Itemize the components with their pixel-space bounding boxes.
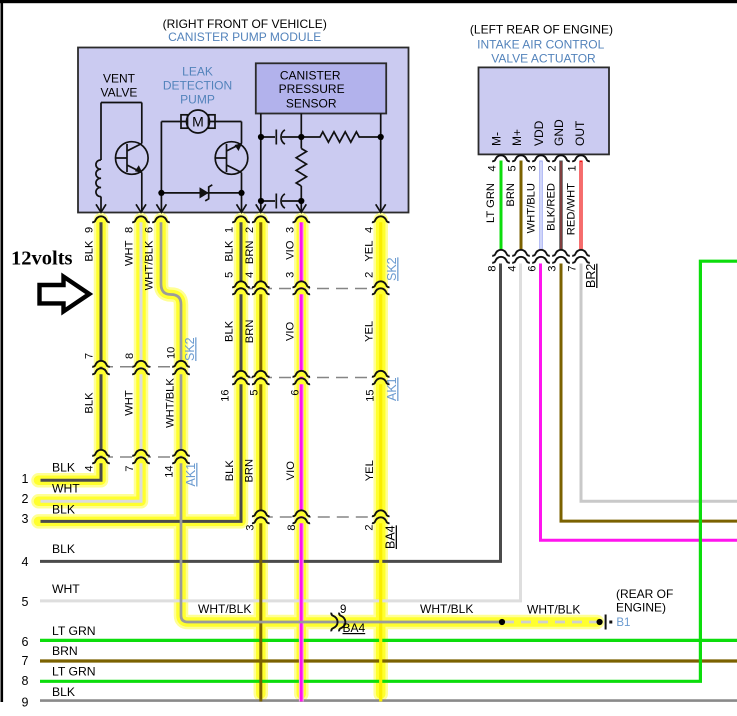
- connector BA4 break (YEL): [372, 510, 390, 516]
- connector BA4 break (VIO): [293, 510, 311, 516]
- svg-text:RED/WHT: RED/WHT: [566, 183, 578, 235]
- wire BLK from module pin 1 to row 3: [41, 222, 242, 522]
- svg-text:BLK: BLK: [84, 240, 96, 262]
- svg-text:15: 15: [365, 390, 377, 402]
- connector BA4 break on horizontal WHT/BLK: [331, 613, 337, 632]
- band BLK pin9 wire + row1 (outer): [39, 220, 102, 480]
- svg-text:BRN: BRN: [244, 459, 256, 483]
- wire WHT/BLU actuator pin VDD: [539, 161, 542, 250]
- row 7 BRN wire: [40, 659, 737, 662]
- svg-text:AK1: AK1: [385, 377, 399, 401]
- svg-text:M+: M+: [510, 129, 524, 146]
- band BRN pin2 wire (inner): [256, 220, 266, 694]
- svg-text:WHT: WHT: [124, 240, 136, 266]
- page left border: [1, 0, 4, 702]
- svg-text:7: 7: [124, 466, 136, 472]
- zener diode line: [161, 192, 241, 194]
- svg-text:4: 4: [487, 165, 499, 171]
- svg-text:YEL: YEL: [364, 460, 376, 481]
- leak detection pump motor wiring: [161, 122, 241, 213]
- svg-text:BLK: BLK: [224, 240, 236, 262]
- svg-text:ENGINE): ENGINE): [616, 601, 666, 615]
- svg-text:14: 14: [164, 466, 176, 478]
- wire BRN from module pin 2: [259, 222, 262, 702]
- module pin socket 2: [252, 216, 270, 222]
- svg-text:B1: B1: [616, 617, 630, 629]
- dashed connector link AK1 (left group): [101, 456, 181, 458]
- svg-text:6: 6: [144, 227, 156, 233]
- connector AK1 break (YEL): [372, 371, 390, 377]
- svg-text:3: 3: [527, 165, 539, 171]
- connector SK2 break (BLK right): [232, 281, 250, 287]
- svg-text:OUT: OUT: [573, 120, 587, 146]
- svg-text:VDD: VDD: [532, 120, 546, 146]
- sensor right wire (pin 4 YEL): [380, 114, 382, 213]
- module exit arrow pin 4: [376, 204, 386, 212]
- connector AK1 break (WHT/BLK): [172, 450, 190, 456]
- dashed connector link SK2 (right group): [241, 288, 381, 290]
- dashed connector link SK2 (left group): [101, 366, 181, 368]
- svg-text:BRN: BRN: [52, 644, 78, 658]
- actuator pin socket VDD: [532, 155, 550, 161]
- WHT wire from BR2 pin 7 to right edge: [581, 264, 737, 502]
- connector SK2 break (YEL): [372, 281, 390, 287]
- svg-text:M: M: [192, 114, 204, 130]
- dashed WHT/BLK segment to B1: [504, 621, 598, 624]
- dashed connector link AK1 (right group): [241, 377, 381, 379]
- svg-text:3: 3: [22, 512, 29, 526]
- module pin socket 6: [152, 216, 170, 222]
- svg-text:6: 6: [22, 635, 29, 649]
- svg-text:PUMP: PUMP: [180, 93, 215, 107]
- connector AK1 break (BLK): [92, 450, 110, 456]
- svg-text:BA4: BA4: [343, 621, 366, 635]
- svg-text:WHT: WHT: [124, 390, 136, 416]
- svg-text:2: 2: [364, 525, 376, 531]
- sensor left wire (pin 2 BRN): [260, 114, 262, 213]
- band BLK pin1 wire + row3 (inner): [39, 220, 242, 521]
- row 5 WHT wire (to BR2 pin 4): [40, 264, 521, 601]
- svg-text:1: 1: [22, 472, 29, 486]
- row 8 LT GRN wire loop to right edge: [40, 261, 737, 681]
- connector SK2 break (BRN): [252, 281, 270, 287]
- svg-text:1: 1: [567, 165, 579, 171]
- svg-text:WHT: WHT: [52, 582, 80, 596]
- band BLK pin1 wire + row3 (outer): [39, 220, 242, 521]
- sensor middle wire (pin 3 VIO): [300, 114, 302, 213]
- module exit arrow pin 3: [296, 204, 306, 212]
- band WHT/BLK pin6 wire + horizontal WHT/BLK run (outer): [161, 220, 597, 622]
- svg-text:LT GRN: LT GRN: [52, 665, 96, 679]
- connector SK2 break (BLK): [92, 361, 110, 367]
- svg-text:SENSOR: SENSOR: [286, 97, 337, 111]
- svg-text:8: 8: [22, 674, 29, 688]
- svg-text:YEL: YEL: [364, 241, 376, 262]
- svg-text:WHT/BLK: WHT/BLK: [144, 240, 156, 290]
- module exit arrow pin 2: [256, 204, 266, 212]
- resistor R2 (horizontal): [301, 132, 380, 142]
- svg-text:16: 16: [220, 390, 232, 402]
- row 6 LT GRN wire: [40, 639, 737, 642]
- connector BR2 break: [512, 250, 530, 256]
- svg-text:10: 10: [166, 347, 178, 359]
- svg-text:YEL: YEL: [364, 321, 376, 342]
- svg-text:SK2: SK2: [385, 257, 399, 281]
- band VIO pin3 wire (outer): [294, 220, 309, 694]
- svg-text:2: 2: [364, 272, 376, 278]
- wire LT GRN actuator pin M-: [500, 161, 503, 250]
- svg-text:8: 8: [124, 227, 136, 233]
- svg-text:BLK: BLK: [52, 503, 75, 517]
- svg-text:5: 5: [249, 390, 261, 396]
- svg-text:BLK: BLK: [52, 685, 75, 699]
- svg-text:WHT/BLK: WHT/BLK: [527, 603, 580, 617]
- junction dot: [258, 134, 264, 140]
- svg-text:4: 4: [507, 266, 519, 272]
- band VIO pin3 wire (inner): [297, 220, 307, 694]
- svg-text:3: 3: [285, 227, 297, 233]
- svg-text:LEAK: LEAK: [182, 65, 213, 79]
- junction dot: [238, 190, 244, 196]
- module exit arrow pin 1: [237, 204, 247, 212]
- connector BA4 break (BRN): [252, 510, 270, 516]
- vent valve coil + wiring: [101, 103, 142, 213]
- svg-text:2: 2: [22, 492, 29, 506]
- svg-text:GND: GND: [552, 119, 566, 146]
- svg-text:WHT/BLK: WHT/BLK: [165, 378, 177, 428]
- svg-text:BLK: BLK: [52, 461, 75, 475]
- band WHT pin8 wire + row2 (inner): [39, 220, 142, 501]
- svg-text:3: 3: [547, 266, 559, 272]
- module pin socket 8: [132, 216, 150, 222]
- canister pump module box: [78, 48, 409, 213]
- connector SK2 break (WHT): [132, 361, 150, 367]
- svg-text:4: 4: [22, 555, 29, 569]
- wire BLK/RED actuator pin GND: [559, 161, 562, 250]
- ground point B1: [605, 615, 607, 630]
- motor M circle: [187, 110, 210, 133]
- page top border: [0, 0, 737, 3]
- svg-text:7: 7: [567, 266, 579, 272]
- svg-text:AK1: AK1: [184, 463, 198, 487]
- svg-text:CANISTER PUMP MODULE: CANISTER PUMP MODULE: [168, 30, 321, 44]
- wire BRN actuator pin M+: [520, 161, 523, 250]
- svg-text:VALVE: VALVE: [101, 85, 138, 99]
- connector BR2 break: [572, 250, 590, 256]
- svg-text:BLK/RED: BLK/RED: [546, 183, 558, 231]
- module pin socket 3: [293, 216, 311, 222]
- connector SK2 break (WHT/BLK): [172, 361, 190, 367]
- canister pressure sensor box: [256, 63, 386, 113]
- motor terminal brackets: [181, 115, 188, 128]
- svg-text:LT GRN: LT GRN: [52, 624, 96, 638]
- wire RED/WHT actuator pin OUT: [579, 161, 582, 250]
- band YEL pin4 wire (outer): [373, 220, 388, 694]
- BRN wire from BR2 pin 3 to right edge: [561, 264, 737, 522]
- svg-text:12volts: 12volts: [11, 248, 73, 270]
- connector BR2 break: [492, 250, 510, 256]
- svg-text:PRESSURE: PRESSURE: [279, 82, 345, 96]
- svg-text:(REAR OF: (REAR OF: [616, 587, 673, 601]
- transistor Q2 (pump): [215, 142, 248, 175]
- svg-text:4: 4: [244, 272, 256, 278]
- svg-text:3: 3: [285, 272, 297, 278]
- actuator pin socket OUT: [572, 155, 590, 161]
- svg-text:5: 5: [507, 165, 519, 171]
- module exit arrow pin 6: [156, 204, 166, 212]
- module exit arrow pin 9: [96, 204, 106, 212]
- svg-text:9: 9: [84, 227, 96, 233]
- connector AK1 break (VIO): [293, 371, 311, 377]
- svg-text:BRN: BRN: [244, 241, 256, 265]
- svg-text:(LEFT REAR OF ENGINE): (LEFT REAR OF ENGINE): [470, 23, 613, 37]
- wire WHT/BLK from module pin 6, jog, down and right to splice: [161, 222, 502, 623]
- connector BR2 break: [532, 250, 550, 256]
- wire BLK from module pin 9 to row 1: [41, 222, 102, 481]
- connector AK1 break (WHT): [132, 450, 150, 456]
- actuator pin socket M+: [512, 155, 530, 161]
- svg-text:8: 8: [286, 525, 298, 531]
- svg-text:7: 7: [84, 353, 96, 359]
- transistor Q1 (vent valve): [116, 142, 149, 175]
- svg-text:WHT/BLK: WHT/BLK: [420, 602, 473, 616]
- svg-text:WHT/BLU: WHT/BLU: [526, 183, 538, 233]
- Q2 collector arrowhead: [235, 143, 243, 151]
- svg-text:VENT: VENT: [103, 72, 136, 86]
- svg-text:BR2: BR2: [584, 264, 598, 288]
- junction dot: [158, 190, 164, 196]
- module pin socket 9: [92, 216, 110, 222]
- svg-text:4: 4: [364, 227, 376, 233]
- svg-text:2: 2: [547, 165, 559, 171]
- junction dot: [258, 198, 264, 204]
- svg-text:BLK: BLK: [52, 542, 75, 556]
- svg-text:5: 5: [224, 272, 236, 278]
- svg-text:6: 6: [527, 266, 539, 272]
- svg-text:CANISTER: CANISTER: [280, 68, 341, 82]
- svg-text:9: 9: [22, 696, 29, 710]
- wire VIO from module pin 3: [299, 222, 304, 702]
- svg-text:DETECTION: DETECTION: [163, 79, 232, 93]
- intake air control valve actuator box: [479, 67, 610, 154]
- junction dot: [298, 134, 304, 140]
- band BRN pin2 wire (outer): [254, 220, 269, 694]
- connector BR2 break: [552, 250, 570, 256]
- svg-text:5: 5: [22, 595, 29, 609]
- svg-text:BA4: BA4: [384, 525, 398, 549]
- svg-text:LT GRN: LT GRN: [485, 183, 497, 223]
- MAG wire from BR2 pin 6 to right edge: [541, 264, 737, 541]
- splice dot: [597, 619, 603, 625]
- junction dot: [298, 198, 304, 204]
- svg-text:1: 1: [224, 227, 236, 233]
- svg-text:9: 9: [340, 604, 346, 616]
- resistor R1 (vertical): [296, 149, 306, 187]
- svg-text:4: 4: [84, 466, 96, 472]
- svg-text:VIO: VIO: [285, 321, 297, 341]
- svg-text:VALVE ACTUATOR: VALVE ACTUATOR: [491, 52, 596, 66]
- svg-text:M-: M-: [490, 132, 504, 146]
- svg-text:8: 8: [487, 266, 499, 272]
- inductor coil L (vent valve): [96, 160, 101, 197]
- 12 volts block arrow: [40, 277, 90, 312]
- zener diode D1: [200, 187, 209, 198]
- module exit arrow pin 8: [136, 204, 146, 212]
- wire YEL from module pin 4: [379, 222, 382, 702]
- module pin socket 1: [232, 216, 250, 222]
- capacitor C2 row: [261, 200, 302, 202]
- svg-text:7: 7: [22, 654, 29, 668]
- band YEL pin4 wire (inner): [376, 220, 386, 694]
- band WHT/BLK pin6 wire + horizontal WHT/BLK run (inner): [161, 220, 597, 622]
- svg-text:BLK: BLK: [224, 320, 236, 342]
- svg-text:8: 8: [124, 353, 136, 359]
- svg-text:BLK: BLK: [224, 460, 236, 482]
- svg-text:3: 3: [245, 525, 257, 531]
- wire WHT from module pin 8 to row 2: [41, 222, 142, 502]
- band BLK pin9 wire + row1 (inner): [39, 220, 102, 480]
- Q1 emitter arrowhead: [135, 165, 143, 173]
- svg-text:BLK: BLK: [84, 392, 96, 414]
- row 4 BLK wire (to BR2 pin 8): [40, 264, 501, 562]
- connector SK2 break (VIO): [293, 281, 311, 287]
- connector AK1 break (BRN): [252, 371, 270, 377]
- svg-text:VIO: VIO: [285, 461, 297, 481]
- band WHT pin8 wire + row2 (outer): [39, 220, 142, 501]
- dashed connector link BA4 (right group): [261, 516, 381, 518]
- svg-text:SK2: SK2: [183, 337, 197, 361]
- svg-text:BRN: BRN: [244, 320, 256, 344]
- svg-text:(RIGHT FRONT OF VEHICLE): (RIGHT FRONT OF VEHICLE): [163, 17, 327, 31]
- connector AK1 break (BLK right): [232, 371, 250, 377]
- svg-text:INTAKE AIR CONTROL: INTAKE AIR CONTROL: [477, 38, 604, 52]
- svg-text:WHT/BLK: WHT/BLK: [198, 602, 251, 616]
- actuator pin socket M-: [492, 155, 510, 161]
- splice dot: [499, 619, 505, 625]
- svg-text:BRN: BRN: [505, 183, 517, 207]
- svg-text:WHT: WHT: [52, 482, 80, 496]
- svg-text:6: 6: [290, 390, 302, 396]
- svg-text:2: 2: [244, 227, 256, 233]
- svg-text:VIO: VIO: [285, 240, 297, 260]
- row 9 BLK wire: [40, 699, 737, 702]
- module pin socket 4: [372, 216, 390, 222]
- junction dot: [378, 134, 384, 140]
- capacitor C1 row: [261, 136, 302, 138]
- actuator pin socket GND: [552, 155, 570, 161]
